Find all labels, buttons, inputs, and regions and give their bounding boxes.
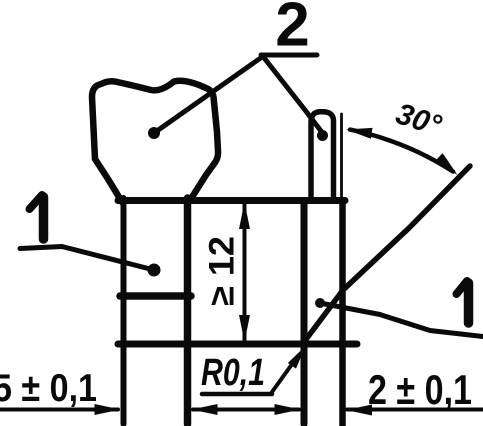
svg-text:R0,1: R0,1 [201, 352, 265, 394]
divider wall 1 + extension line [184, 198, 192, 424]
main body bottom line [118, 341, 357, 348]
main body top line [118, 197, 345, 204]
bottom dimension line segment right (2 +- 0,1) [347, 408, 483, 412]
bottom dimension line segment middle [193, 408, 299, 412]
arrowhead middle dim pointing right [275, 404, 301, 415]
blade outline (insert part 2, right) [311, 112, 334, 200]
arrowhead middle dim pointing left [192, 404, 218, 415]
leader from label 1 left [20, 247, 154, 271]
arrowhead R0,1 leader [288, 346, 306, 369]
thin angle reference extension line [340, 114, 343, 198]
bottom dimension line segment left (5 +- 0,1) [0, 408, 118, 412]
left column horizontal divider [120, 292, 191, 300]
divider wall 2 + extension line [301, 201, 308, 424]
svg-text:5 ± 0,1: 5 ± 0,1 [0, 367, 97, 410]
R0,1 underline [202, 392, 272, 397]
label 1 right [457, 281, 469, 323]
arrowhead 5 dim pointing right [95, 404, 121, 415]
svg-text:2 ± 0,1: 2 ± 0,1 [368, 366, 472, 413]
leader from label 2 to blade [263, 57, 323, 134]
left edge wall + extension line [121, 198, 127, 424]
dot on crown leader [148, 127, 160, 139]
30 degree angle arc [350, 130, 453, 172]
arrowhead arc left end [346, 128, 373, 139]
R0,1 leader line [272, 360, 295, 392]
dot on right 1 leader [315, 298, 325, 308]
svg-text:2: 2 [275, 0, 309, 60]
label 2 underline [261, 53, 317, 58]
label 1 left [30, 195, 44, 239]
leader from label 2 to crown [154, 57, 262, 133]
crown outline (insert part 2, left blob) [92, 81, 218, 202]
arrowhead of >=12 bottom [239, 315, 250, 342]
dimension line for >=12 [243, 203, 247, 341]
leader from label 1 right [320, 303, 483, 337]
arrowhead of >=12 top [239, 202, 250, 229]
svg-text:≥ 12: ≥ 12 [203, 236, 242, 306]
arrowhead arc right end [435, 153, 458, 175]
arrowhead 2 dim pointing left [346, 405, 372, 416]
right edge wall + extension line [339, 203, 346, 426]
dot on left 1 leader [148, 264, 161, 277]
dot on blade leader [317, 130, 328, 141]
big chamfer diagonal line [304, 166, 470, 342]
